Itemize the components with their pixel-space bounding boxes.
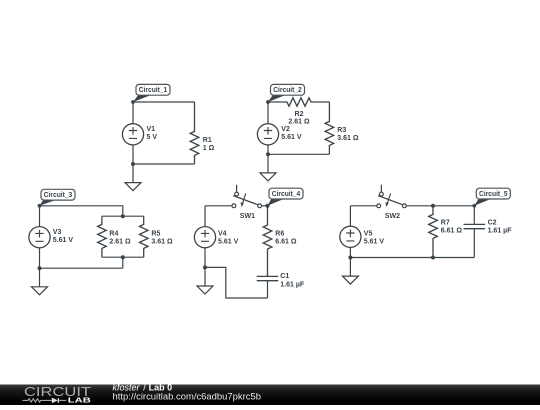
svg-text:V4: V4	[218, 230, 227, 237]
svg-text:1.61 µF: 1.61 µF	[280, 281, 305, 288]
ground Circuit_4	[204, 267, 206, 286]
svg-text:1.61 µF: 1.61 µF	[488, 228, 513, 235]
voltage source V5 5.61V	[340, 206, 385, 258]
wire V4 to SW1	[205, 205, 232, 207]
node junction parallel bottom	[121, 255, 125, 259]
node junction parallel top	[121, 214, 125, 218]
node flag label Circuit_3	[38, 204, 42, 208]
svg-text:R4: R4	[109, 230, 118, 237]
footer title kfoster / Lab 0	[113, 383, 173, 393]
capacitor C2 1.61uF	[464, 206, 513, 258]
CircuitLab logo	[23, 384, 92, 404]
switch SW2	[377, 185, 406, 220]
svg-text:R2: R2	[295, 111, 304, 118]
ground Circuit_2	[267, 154, 269, 173]
node junction R7 bottom	[431, 256, 435, 260]
svg-text:LAB: LAB	[68, 396, 92, 405]
wire bottom Circuit_3	[40, 267, 123, 269]
svg-text:5.61 V: 5.61 V	[281, 134, 302, 141]
node junction SW1 right	[266, 204, 270, 208]
switch SW1	[232, 185, 262, 220]
resistor R2 2.61 ohm (horizontal)	[268, 98, 329, 126]
node junction R7 top	[431, 204, 435, 208]
svg-text:Circuit_1: Circuit_1	[139, 87, 168, 94]
node flag label Circuit_4	[266, 204, 270, 208]
svg-text:V1: V1	[147, 126, 156, 133]
svg-text:3.61 Ω: 3.61 Ω	[151, 239, 173, 246]
node flag label Circuit_5	[472, 204, 476, 208]
ground Circuit_1	[132, 164, 134, 183]
svg-text:2.61 Ω: 2.61 Ω	[288, 119, 310, 126]
svg-text:1 Ω: 1 Ω	[203, 145, 215, 152]
wire V5 to SW2	[350, 205, 376, 207]
resistor R6 6.61 ohm	[263, 206, 297, 276]
node junction bottom V1	[131, 162, 135, 166]
svg-text:V2: V2	[281, 126, 290, 133]
wire bottom Circuit_1	[133, 163, 195, 165]
svg-text:5.61 V: 5.61 V	[364, 239, 385, 246]
voltage source V2 5.61V	[257, 102, 301, 154]
svg-text:2.61 Ω: 2.61 Ω	[109, 239, 131, 246]
svg-text:R1: R1	[203, 137, 212, 144]
svg-text:SW1: SW1	[240, 213, 255, 220]
voltage source V1 5V	[122, 102, 157, 164]
svg-text:R7: R7	[441, 220, 450, 227]
svg-text:Circuit_4: Circuit_4	[272, 191, 301, 198]
wire SW2 to C2 branch	[406, 205, 474, 207]
wire SW1 to node	[262, 205, 268, 207]
svg-text:5.61 V: 5.61 V	[218, 239, 239, 246]
svg-text:Circuit_3: Circuit_3	[44, 192, 73, 199]
wire bottom Circuit_2	[268, 153, 329, 155]
svg-text:V3: V3	[53, 229, 62, 236]
svg-text:5.61 V: 5.61 V	[53, 237, 74, 244]
resistor R7 6.61 ohm	[429, 206, 463, 258]
resistor R4 2.61 ohm	[98, 216, 131, 257]
node junction bottom V2	[266, 152, 270, 156]
wire bottom Circuit_5	[350, 257, 474, 259]
node junction bottom V4	[203, 265, 207, 269]
svg-text:Circuit_2: Circuit_2	[273, 87, 302, 94]
svg-text:SW2: SW2	[385, 213, 400, 220]
voltage source V3 5.61V	[29, 206, 73, 268]
svg-text:R5: R5	[151, 230, 160, 237]
ground Circuit_3	[39, 268, 41, 287]
svg-text:V5: V5	[364, 230, 373, 237]
node flag label Circuit_1	[131, 100, 135, 104]
wire top Circuit_3	[40, 206, 123, 216]
resistor R1	[190, 102, 214, 164]
svg-text:5 V: 5 V	[147, 134, 158, 141]
voltage source V4 5.61V	[194, 206, 238, 268]
svg-text:6.61 Ω: 6.61 Ω	[275, 239, 297, 246]
svg-text:3.61 Ω: 3.61 Ω	[337, 135, 359, 142]
wire parallel top bar	[102, 215, 144, 217]
svg-text:http://circuitlab.com/c6adbu7p: http://circuitlab.com/c6adbu7pkrc5b	[113, 391, 262, 401]
node junction bottom V3	[38, 266, 42, 270]
node flag label Circuit_2	[266, 100, 270, 104]
resistor R5 3.61 ohm	[139, 216, 173, 257]
svg-text:R6: R6	[275, 231, 284, 238]
svg-text:C2: C2	[488, 220, 497, 227]
wire top Circuit_1	[133, 101, 195, 103]
svg-text:R3: R3	[337, 127, 346, 134]
resistor R3 3.61 ohm	[325, 102, 359, 154]
wire bottom Circuit_4	[205, 267, 268, 298]
capacitor C1 1.61uF	[257, 273, 305, 298]
ground Circuit_5	[349, 258, 351, 277]
svg-text:6.61 Ω: 6.61 Ω	[441, 228, 463, 235]
svg-text:C1: C1	[280, 273, 289, 280]
node junction bottom V5	[348, 256, 352, 260]
wire parallel bottom bar	[102, 256, 144, 258]
svg-text:Circuit_5: Circuit_5	[479, 191, 508, 198]
wire to bottom rail	[122, 257, 124, 268]
